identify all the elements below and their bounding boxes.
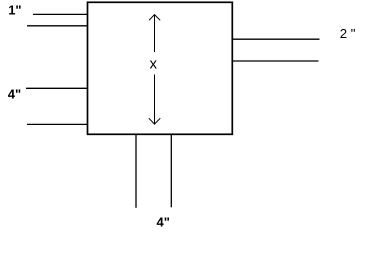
svg-text:1": 1": [8, 2, 21, 17]
svg-text:x: x: [150, 56, 158, 73]
svg-text:4": 4": [157, 215, 170, 230]
svg-text:2 ": 2 ": [340, 26, 356, 41]
svg-text:4": 4": [8, 87, 21, 102]
